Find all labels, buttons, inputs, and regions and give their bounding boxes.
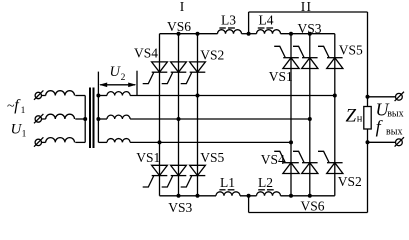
- transformer secondary winding 2: [107, 115, 130, 119]
- label VS1 group II: [269, 69, 293, 84]
- thyristor VS5: [181, 165, 206, 187]
- inductor L1: [216, 192, 240, 196]
- inductor L3 core: [219, 27, 235, 29]
- leg I-3 wire: [197, 34, 199, 196]
- transformer secondary winding 1: [107, 92, 130, 96]
- svg-text:2: 2: [121, 73, 126, 83]
- transformer core: [90, 88, 94, 149]
- label VS1 group I: [136, 150, 160, 165]
- thyristor VS2 group II: [318, 151, 343, 173]
- output terminal bottom: [395, 137, 404, 146]
- label VS6 group II lower: [300, 199, 324, 214]
- svg-text:вых: вых: [386, 127, 402, 138]
- wire secondary bus to winding 1: [98, 95, 107, 97]
- label L4: [259, 12, 274, 27]
- label L3: [221, 12, 236, 27]
- inductor L3: [218, 30, 242, 34]
- label VS3 bottom: [168, 200, 192, 215]
- label VS2 group II lower: [338, 174, 362, 189]
- node bottom bus leg II-2: [308, 194, 312, 198]
- inductor L1 core: [219, 189, 234, 191]
- label VS2 group I: [200, 48, 224, 63]
- node top bus L3-L4 junction: [247, 32, 251, 36]
- inductor L2: [257, 192, 281, 196]
- svg-text:VS6: VS6: [300, 199, 324, 214]
- svg-text:L4: L4: [259, 12, 274, 27]
- node rail2 leg I-2: [177, 117, 181, 121]
- svg-text:VS3: VS3: [298, 21, 322, 36]
- label VS5 group II: [339, 43, 363, 58]
- group I top bus: [160, 33, 218, 35]
- svg-text:VS4: VS4: [134, 46, 158, 61]
- wire to output terminal top: [368, 96, 396, 98]
- thyristor VS6 group II: [293, 151, 318, 173]
- svg-text:1: 1: [22, 129, 27, 139]
- label VS3 group II: [298, 21, 322, 36]
- svg-text:L3: L3: [221, 12, 236, 27]
- primary star bus: [84, 96, 86, 143]
- phase rail 3: [130, 141, 291, 143]
- U2 right tick: [136, 71, 138, 96]
- node secondary bus row2: [96, 117, 100, 121]
- label VS4 group II: [261, 152, 285, 167]
- wire II rail riser: [248, 12, 250, 34]
- svg-text:вых: вых: [387, 108, 403, 119]
- phase rail 1: [130, 95, 335, 97]
- wire to output terminal bottom: [368, 141, 396, 143]
- label ~f1: [7, 97, 26, 116]
- label L1: [220, 175, 235, 190]
- node rail1 leg I-3: [196, 94, 200, 98]
- label I: [180, 0, 185, 14]
- inductor L2 core: [258, 189, 274, 191]
- svg-text:1: 1: [21, 106, 26, 116]
- node rail2 leg II-2: [308, 117, 312, 121]
- label Uvyh: [376, 99, 404, 119]
- svg-text:н: н: [357, 114, 363, 125]
- node top bus leg II-1: [289, 32, 293, 36]
- load column lower: [367, 129, 369, 213]
- wire secondary bus to winding 2: [98, 118, 107, 120]
- transformer primary winding 2: [46, 114, 75, 119]
- node rail1 leg II-3: [333, 94, 337, 98]
- node top bus leg I-3: [196, 32, 200, 36]
- label VS4: [134, 46, 158, 61]
- node bottom bus leg I-2: [177, 194, 181, 198]
- secondary star bus: [97, 72, 99, 143]
- wire L1 to junction: [240, 195, 257, 197]
- thyristor VS4: [143, 62, 168, 84]
- inductor L4 core: [258, 27, 273, 29]
- leg II-1 wire: [290, 34, 292, 196]
- wire secondary bus to winding 3: [98, 141, 107, 143]
- leg I-1 wire: [159, 34, 161, 196]
- svg-text:VS1: VS1: [269, 69, 293, 84]
- thyristor VS3 group II: [293, 46, 318, 68]
- load column upper: [367, 12, 369, 107]
- svg-text:VS3: VS3: [168, 200, 192, 215]
- svg-text:VS5: VS5: [339, 43, 363, 58]
- node rail3 leg II-1: [289, 140, 293, 144]
- wire primary winding 1 to star bus: [75, 95, 85, 97]
- transformer secondary winding 3: [107, 139, 130, 143]
- leg II-2 wire: [309, 34, 311, 196]
- svg-text:VS2: VS2: [200, 48, 224, 63]
- label VS6: [167, 19, 191, 34]
- load resistor Zn: [364, 107, 371, 130]
- svg-text:VS4: VS4: [261, 152, 285, 167]
- group I bottom bus: [160, 195, 217, 197]
- thyristor VS4 group II: [274, 151, 299, 173]
- label L2: [258, 175, 273, 190]
- label VS5 group I: [200, 150, 224, 165]
- node bottom bus leg I-3: [196, 194, 200, 198]
- wire terminal2 to primary winding: [42, 118, 46, 120]
- input terminal phase 2: [34, 114, 43, 123]
- wire terminal3 to primary winding: [42, 141, 46, 143]
- output terminal top: [395, 92, 404, 101]
- node rail3 leg I-1: [158, 140, 162, 144]
- wire L3 to junction: [242, 33, 257, 35]
- label Zn: [346, 105, 363, 126]
- wire L2 to group II bus: [281, 195, 335, 197]
- svg-text:L2: L2: [258, 175, 273, 190]
- leg II-3 wire: [334, 34, 336, 196]
- label U1: [11, 122, 27, 140]
- wire L4 to group II bus: [281, 33, 335, 35]
- svg-text:L1: L1: [220, 175, 235, 190]
- node secondary bus row1: [96, 94, 100, 98]
- svg-text:Z: Z: [346, 105, 357, 126]
- U2 arrow: [99, 83, 136, 88]
- bottom return riser: [248, 196, 250, 213]
- thyristor VS1 group II: [274, 46, 299, 68]
- thyristor VS3: [162, 165, 187, 187]
- node top bus leg I-2: [177, 32, 181, 36]
- node primary star mid: [83, 117, 87, 121]
- input terminal phase 3: [34, 137, 43, 146]
- node top bus leg II-2: [308, 32, 312, 36]
- thyristor VS1: [143, 165, 168, 187]
- transformer primary winding 1: [46, 91, 75, 96]
- label U2: [110, 64, 126, 83]
- wire terminal1 to primary winding: [42, 95, 46, 97]
- bottom return rail: [249, 212, 368, 214]
- svg-text:VS2: VS2: [338, 174, 362, 189]
- leg I-2 wire: [178, 34, 180, 196]
- transformer primary winding 3: [46, 138, 75, 143]
- wire primary winding 2 to star bus: [75, 118, 85, 120]
- wire primary winding 3 to star bus: [75, 141, 85, 143]
- label fvyh: [376, 116, 403, 137]
- svg-text:I: I: [180, 0, 185, 14]
- node bottom bus leg II-1: [289, 194, 293, 198]
- inductor L4: [257, 30, 281, 34]
- svg-text:VS5: VS5: [200, 150, 224, 165]
- phase rail 2: [130, 118, 310, 120]
- II rail: [249, 11, 368, 13]
- thyristor VS2: [181, 62, 206, 84]
- input terminal phase 1: [34, 90, 43, 99]
- thyristor VS6: [162, 62, 187, 84]
- node load bottom tap: [366, 140, 370, 144]
- node load top tap: [366, 95, 370, 99]
- svg-text:VS6: VS6: [167, 19, 191, 34]
- svg-text:VS1: VS1: [136, 150, 160, 165]
- label II: [301, 0, 312, 14]
- thyristor VS5 group II: [318, 46, 343, 68]
- node bottom bus L1-L2 junction: [247, 194, 251, 198]
